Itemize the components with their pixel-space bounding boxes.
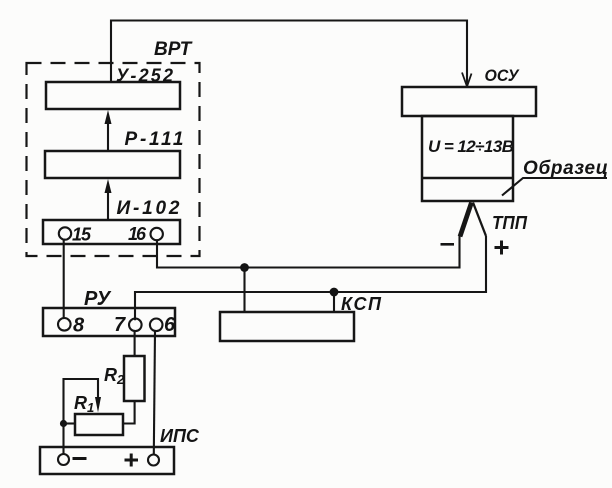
svg-text:ВРТ: ВРТ — [154, 39, 193, 60]
terminal 15 of И-102 — [59, 225, 92, 245]
svg-text:КСП: КСП — [341, 294, 382, 314]
block ВРТ dashed enclosure — [27, 63, 200, 256]
resistor R1 rheostat body — [75, 414, 123, 435]
svg-text:15: 15 — [72, 225, 92, 245]
terminal 8 of РУ — [58, 315, 85, 337]
rheostat R1 wiper arrow wire — [64, 379, 102, 424]
svg-text:ИПС: ИПС — [160, 426, 200, 446]
wire W4: РУ pin 7 up and across to ТПП plus electrode — [135, 236, 486, 320]
divider line: specimen boundary inside chamber — [422, 177, 513, 180]
wire arrow: Р-111 output to У-252 — [105, 110, 112, 151]
wire W5: node A down to КСП input — [243, 268, 245, 313]
thermocouple ТПП hot junction — [460, 203, 486, 237]
terminal 7 of РУ — [114, 314, 142, 336]
block У-252 amplifier — [46, 82, 180, 109]
wire W10: node C to R1 left terminal — [64, 422, 76, 424]
polarity plus of ТПП — [495, 241, 509, 255]
wire W6: node B down to КСП input — [333, 292, 335, 312]
wire W12: РУ pin 6 down to ИПС plus terminal — [154, 331, 155, 455]
block РУ — [43, 308, 175, 336]
svg-text:7: 7 — [114, 314, 126, 336]
block ИПС — [40, 447, 174, 474]
svg-text:ОСУ: ОСУ — [485, 66, 520, 85]
block Р-111 — [45, 151, 180, 178]
svg-text:Р-111: Р-111 — [125, 129, 184, 150]
svg-text:Образец: Образец — [523, 158, 608, 179]
wire W2: И-102 pin 15 to РУ pin 8 — [63, 239, 65, 320]
resistor R2 — [124, 356, 145, 401]
svg-text:R2: R2 — [104, 365, 125, 387]
wire W3: И-102 pin 16 to ТПП minus electrode — [157, 236, 460, 268]
junction node C (R1 left terminal, wiper return, ИПС minus) — [60, 420, 67, 427]
block specimen chamber under ОСУ — [422, 116, 513, 201]
wire W11: node C down to ИПС minus terminal — [62, 424, 64, 455]
svg-text:U = 12÷13В: U = 12÷13В — [428, 137, 514, 156]
terminal 6 of РУ — [150, 314, 176, 336]
svg-text:ТПП: ТПП — [492, 213, 528, 233]
terminal 16 of И-102 — [128, 224, 163, 244]
svg-text:16: 16 — [128, 224, 147, 244]
block И-102 — [43, 220, 180, 244]
svg-text:И-102: И-102 — [117, 198, 180, 219]
svg-text:6: 6 — [164, 314, 176, 336]
wire W8: R2 bottom to R1 right terminal — [123, 401, 135, 424]
terminal minus of ИПС — [58, 454, 87, 465]
block ОСУ furnace top — [402, 87, 536, 116]
wire W1: У-252 output up and across to ОСУ heater input — [111, 21, 472, 87]
polarity minus of ТПП — [441, 243, 455, 246]
block КСП — [220, 312, 354, 341]
svg-text:РУ: РУ — [84, 288, 112, 310]
svg-text:R1: R1 — [74, 393, 94, 415]
svg-text:У-252: У-252 — [116, 66, 173, 86]
svg-text:8: 8 — [73, 315, 85, 337]
terminal plus of ИПС — [125, 454, 160, 467]
junction node A on wire W3 — [240, 263, 249, 272]
leader line from Образец to specimen — [502, 178, 607, 196]
junction node B on wire W4 — [330, 288, 339, 297]
wire arrow: И-102 output to Р-111 — [105, 179, 112, 220]
wire W7: РУ pin 7 down to resistor R2 — [134, 331, 136, 356]
